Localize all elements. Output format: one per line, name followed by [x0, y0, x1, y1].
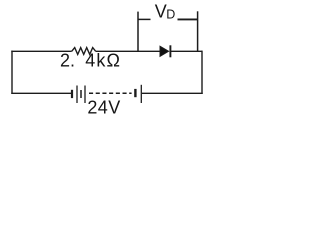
Vd bracket left tick: [137, 12, 139, 52]
label Vd: [155, 1, 176, 21]
diode D1: [160, 45, 170, 57]
resistor R1 2.4k: [72, 48, 96, 55]
svg-text:V: V: [155, 1, 167, 21]
svg-text:D: D: [166, 7, 175, 21]
wire top middle segment: [96, 50, 160, 52]
svg-text:4kΩ: 4kΩ: [85, 51, 121, 71]
label resistor value 2.4kohm: [60, 51, 121, 71]
battery B1 24V multicell: [72, 85, 141, 103]
Vd bracket dimension line left part: [138, 18, 151, 20]
wire bottom left segment: [11, 92, 71, 94]
svg-text:2.: 2.: [60, 51, 75, 71]
wire bottom right segment: [142, 92, 203, 94]
wire top right segment: [170, 50, 202, 52]
wire right edge: [201, 51, 203, 94]
wire top left segment: [11, 50, 71, 52]
wire left edge: [11, 51, 13, 94]
Vd bracket right tick: [197, 11, 199, 51]
svg-text:24V: 24V: [87, 97, 120, 117]
Vd bracket dimension line right part: [178, 18, 198, 20]
